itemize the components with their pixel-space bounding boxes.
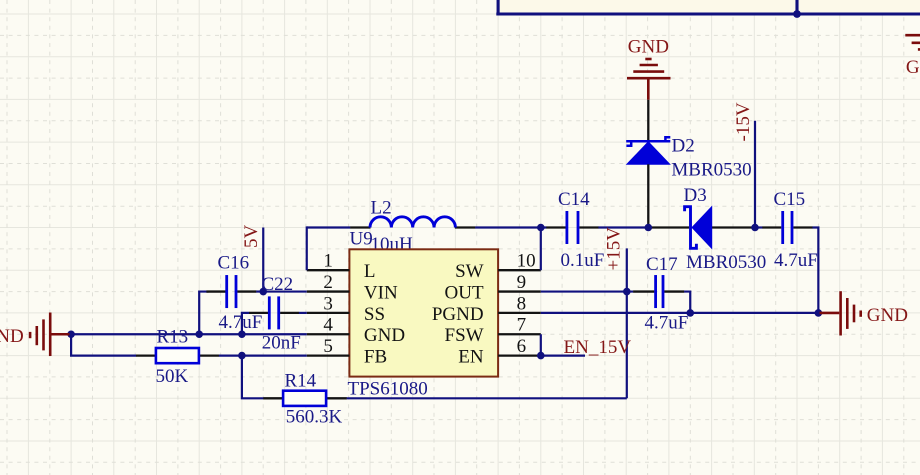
pin U9 pin6 stub: [498, 354, 541, 356]
svg-text:50K: 50K: [156, 366, 189, 387]
pin D3 cathode lead: [648, 226, 689, 228]
svg-text:VIN: VIN: [364, 282, 398, 303]
label C17: [646, 254, 678, 275]
junction rail at D2: [645, 224, 653, 232]
label R14: [285, 370, 317, 391]
diode D3 (schottky, pointing left): [685, 207, 712, 249]
pin U9 pin7 stub: [498, 333, 541, 335]
label D3: [684, 185, 707, 206]
wire R13 to FB node: [219, 355, 242, 357]
pin U9 pin3 stub: [307, 312, 350, 314]
ground GND right: [820, 291, 861, 335]
junction PGND C17: [686, 309, 694, 317]
resistor R14: [283, 391, 326, 406]
wire C22 to SS pin: [299, 312, 307, 314]
pin C15 right: [793, 226, 812, 228]
net label GND right: [867, 305, 908, 326]
svg-text:EN_15V: EN_15V: [564, 337, 632, 358]
wire OUT row: [541, 290, 634, 292]
svg-text:1: 1: [323, 251, 333, 272]
label C16 value 4.7uF: [219, 312, 263, 333]
junction FB node: [238, 352, 246, 360]
svg-text:SS: SS: [364, 304, 385, 325]
svg-text:5: 5: [323, 336, 333, 357]
junction PGND right: [815, 309, 823, 317]
label D2: [672, 136, 695, 157]
label D2 value MBR0530: [671, 159, 751, 180]
svg-text:D2: D2: [672, 136, 695, 157]
label L2 value 10uH: [371, 234, 414, 255]
label R14 value 560.3K: [286, 406, 343, 427]
svg-text:9: 9: [517, 272, 527, 293]
wire top bus riser at node: [795, 0, 798, 14]
diode D2 (schottky, pointing up): [626, 137, 670, 164]
label D3 value MBR0530: [686, 252, 766, 273]
net label GND top-right (clipped): [906, 57, 920, 78]
wire rail under inductor to C14: [475, 226, 546, 228]
svg-text:GND: GND: [364, 325, 405, 346]
svg-text:C14: C14: [558, 189, 590, 210]
wire C22 left elbow: [242, 313, 249, 334]
svg-text:20nF: 20nF: [262, 333, 301, 354]
capacitor C14: [567, 211, 578, 244]
label R13: [157, 326, 189, 347]
svg-text:C17: C17: [646, 254, 678, 275]
svg-text:C22: C22: [262, 274, 294, 295]
svg-text:GND: GND: [867, 305, 908, 326]
wire C14 to D2 node: [598, 226, 648, 228]
inductor L2: [370, 217, 455, 228]
capacitor C17: [656, 275, 663, 308]
pin U9 pin4 stub: [307, 333, 350, 335]
label C17 value 4.7uF: [645, 312, 689, 333]
pin U9 pin1 stub: [307, 269, 350, 271]
junction VIN 5V: [259, 288, 267, 296]
wire L pin riser to rail: [306, 226, 308, 270]
wire PGND row: [541, 312, 819, 314]
svg-text:2: 2: [323, 272, 333, 293]
pin U9 pin8 stub: [498, 312, 541, 314]
svg-text:R13: R13: [157, 326, 189, 347]
capacitor C16: [227, 275, 236, 308]
wire -15V drop: [754, 121, 756, 228]
pin U9 pin2 stub: [307, 290, 350, 292]
wire D3 to C15: [755, 226, 763, 228]
svg-text:0.1uF: 0.1uF: [561, 250, 605, 271]
ground GND top: [627, 59, 671, 100]
label R13 value 50K: [156, 366, 189, 387]
label C22: [262, 274, 294, 295]
pin R13 left: [136, 354, 156, 356]
svg-text:D3: D3: [684, 185, 707, 206]
svg-text:4.7uF: 4.7uF: [774, 250, 818, 271]
junction GND row left: [67, 330, 75, 338]
pin C14 right: [579, 226, 598, 228]
label C15: [774, 189, 806, 210]
svg-text:6: 6: [517, 336, 527, 357]
svg-text:560.3K: 560.3K: [286, 406, 343, 427]
pin C16 left: [206, 290, 225, 292]
label TPS61080: [348, 378, 428, 399]
junction EN FSW: [537, 352, 545, 360]
net label GND left (clipped): [0, 326, 24, 347]
pin R14 right: [327, 397, 347, 399]
pin numbers U9 left: [323, 251, 333, 357]
net label GND top: [628, 37, 669, 58]
wire 5V drop: [262, 228, 264, 292]
svg-text:GND: GND: [906, 57, 920, 78]
pin L2 left: [350, 226, 370, 228]
svg-text:10: 10: [517, 251, 536, 272]
capacitor C15: [783, 211, 792, 244]
pin C22 right: [280, 312, 299, 314]
wire top bus horizontal: [496, 12, 920, 15]
net label -15V: [733, 102, 754, 141]
svg-text:C16: C16: [218, 252, 250, 273]
junction rail at -15V: [751, 224, 759, 232]
svg-text:C15: C15: [774, 189, 806, 210]
net label +15V: [604, 227, 625, 271]
svg-text:MBR0530: MBR0530: [671, 159, 751, 180]
pin L2 right: [455, 226, 476, 228]
pin R14 left: [263, 397, 283, 399]
label L2: [371, 198, 392, 219]
svg-text:EN: EN: [458, 347, 484, 368]
svg-text:+15V: +15V: [604, 227, 625, 271]
pin C14 left: [546, 226, 565, 228]
svg-text:R14: R14: [285, 370, 317, 391]
svg-text:U9: U9: [350, 228, 373, 249]
pin C15 left: [762, 226, 781, 228]
wire EN stub: [541, 355, 585, 357]
junction GND row C22: [238, 330, 246, 338]
wire GND row: [71, 333, 307, 335]
svg-text:FSW: FSW: [445, 325, 484, 346]
wire GND node to R13: [71, 334, 136, 355]
wire FB node down to R14: [242, 356, 264, 399]
wire C15 to right corner: [812, 228, 818, 313]
label C22 value 20nF: [262, 333, 301, 354]
pin U9 pin9 stub: [498, 290, 541, 292]
resistor R13: [156, 348, 199, 363]
junction rail at SW riser: [537, 224, 545, 232]
wire FSW to EN: [540, 334, 542, 355]
pin R13 right: [199, 354, 219, 356]
junction OUT +15V: [623, 288, 631, 296]
pin names U9 left: [364, 261, 405, 367]
wire C16 left riser: [199, 292, 208, 335]
pin C22 left: [249, 312, 268, 314]
wire C16 to 5V node: [256, 290, 263, 292]
pin C17 right: [664, 290, 684, 292]
wire +15V riser: [626, 248, 628, 398]
junction GND row C16: [195, 330, 203, 338]
svg-text:L2: L2: [371, 198, 392, 219]
svg-text:GND: GND: [628, 37, 669, 58]
svg-text:GND: GND: [0, 326, 24, 347]
svg-text:FB: FB: [364, 347, 387, 368]
wire FB row: [242, 355, 307, 357]
wire D2 cathode stub from ground: [647, 100, 649, 140]
pin U9 pin10 stub: [498, 269, 541, 271]
svg-text:L: L: [364, 261, 376, 282]
svg-text:4: 4: [323, 315, 333, 336]
pin names U9 right: [432, 261, 484, 367]
pin C16 right: [237, 290, 256, 292]
label C14: [558, 189, 590, 210]
svg-text:4.7uF: 4.7uF: [645, 312, 689, 333]
wire VIN from 5V node: [263, 290, 307, 292]
svg-text:MBR0530: MBR0530: [686, 252, 766, 273]
op-amp U9 body (TPS61080): [349, 249, 498, 376]
svg-text:7: 7: [517, 315, 527, 336]
pin C17 left: [633, 290, 654, 292]
pin numbers U9 right: [517, 251, 536, 357]
pin D2 anode: [647, 164, 649, 227]
label C16: [218, 252, 250, 273]
wire R14 to +15V riser: [347, 397, 627, 399]
wire top bus left drop: [497, 0, 500, 15]
svg-text:TPS61080: TPS61080: [348, 378, 428, 399]
svg-text:PGND: PGND: [432, 304, 484, 325]
ground GND left: [30, 313, 69, 357]
pin D3 anode lead: [712, 226, 755, 228]
junction top bus: [793, 10, 801, 18]
svg-text:SW: SW: [455, 261, 484, 282]
net label EN_15V: [564, 337, 632, 358]
net label 5V: [241, 225, 262, 249]
label U9: [350, 228, 373, 249]
svg-text:8: 8: [517, 293, 527, 314]
ground GND top-right (clipped): [905, 14, 920, 49]
svg-text:3: 3: [323, 293, 333, 314]
capacitor C22: [269, 296, 278, 329]
sheet symbol interior (clipped, faint yellow): [499, 0, 920, 12]
svg-text:4.7uF: 4.7uF: [219, 312, 263, 333]
wire C17 right elbow: [684, 292, 690, 313]
pin U9 pin5 stub: [307, 354, 350, 356]
label C14 value 0.1uF: [561, 250, 605, 271]
svg-text:5V: 5V: [241, 225, 262, 249]
svg-text:OUT: OUT: [445, 282, 484, 303]
wire rail left segment: [307, 226, 351, 228]
wire SW riser to rail: [540, 228, 542, 271]
label C15 value 4.7uF: [774, 250, 818, 271]
svg-text:-15V: -15V: [733, 102, 754, 141]
